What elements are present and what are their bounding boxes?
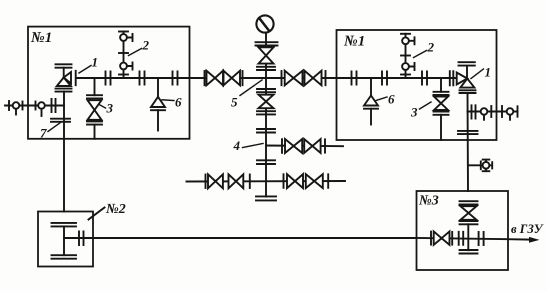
entry gauge cock circle A (13, 102, 20, 109)
check valve 6 left: seat bar (151, 109, 165, 111)
check valve 6 left: tail wire (157, 110, 159, 130)
gate valve 5 upper (vertical) (259, 47, 274, 55)
end tick (517, 106, 519, 116)
middle tick (119, 52, 128, 54)
gate valve B2 (305, 71, 314, 86)
angle valve 1 left: top flange (56, 64, 72, 67)
gauge cock C stem (483, 115, 485, 120)
svg-text:7: 7 (40, 126, 47, 141)
svg-text:1: 1 (92, 55, 99, 70)
gate valve pair right of center: tick (281, 71, 283, 85)
gauge cock circle D (507, 108, 514, 115)
flange pair on main line (173, 72, 178, 85)
flange pair right of junction (479, 232, 484, 245)
svg-text:в ГЗУ: в ГЗУ (511, 222, 544, 236)
angle valve 1 right: stem (466, 66, 468, 78)
flange 7 (51, 119, 70, 122)
gate valve block3 body (434, 231, 442, 244)
leader line 2 left (129, 49, 142, 56)
cock top tick (483, 160, 490, 162)
tick (501, 106, 503, 117)
tick (324, 139, 326, 152)
cock right tick (489, 162, 492, 168)
cock lower side stub (127, 63, 133, 70)
gate valve 3 left: body (88, 100, 102, 110)
angle valve 1 left: outlet flange bar (75, 71, 77, 85)
gate valve D2 (229, 174, 237, 188)
gate valve 3 right: body (434, 97, 448, 104)
svg-text:2: 2 (427, 40, 435, 55)
leader line 7 (48, 123, 60, 132)
leader line 1 right (471, 69, 484, 79)
tick (249, 175, 251, 189)
gate valve 3 right: upper flange (434, 92, 449, 95)
gate valve C1 (285, 139, 294, 153)
manifold block boundary No1 left (28, 27, 190, 139)
outlet arrow line to GZU (508, 238, 531, 240)
wire: right gauge line (468, 111, 518, 113)
entry flange pair (52, 99, 56, 112)
entry gauge cock B stem (41, 109, 43, 116)
gauge needle (260, 19, 268, 30)
gate valve E1 (287, 174, 295, 188)
flange below main junction (257, 89, 275, 92)
angle valve 1 right: horizontal triangle (457, 73, 468, 85)
flange (257, 111, 275, 114)
flange pair on main line (382, 72, 387, 85)
svg-text:3: 3 (106, 101, 114, 116)
leader line No2 (89, 208, 105, 220)
check valve 6 right: seat bar (364, 108, 378, 110)
angle valve 1 left: stem (63, 68, 65, 78)
flange above main junction (257, 67, 275, 70)
flange pair on main line (422, 72, 427, 85)
gate valve block3 horizontal: tick (430, 232, 432, 245)
arrowhead (529, 237, 540, 243)
flange pair on main line (140, 72, 145, 85)
tick (325, 71, 327, 85)
bottom tick (119, 74, 128, 76)
lower line right: tick (283, 174, 285, 188)
bottom tick (401, 74, 410, 76)
flange pair on tee (79, 232, 84, 246)
angle valve 1 right: bottom flange (460, 90, 476, 93)
gate valve 3 left: wire to box edge (94, 125, 96, 139)
tick (451, 232, 453, 245)
cock upper side stub (409, 37, 415, 44)
angle valve 1 right: top flange (459, 62, 475, 65)
manifold block boundary No2 (38, 212, 93, 267)
leader line 4 (243, 144, 264, 148)
junction 4 branch: tick (281, 139, 283, 153)
wire: block No3 through line (417, 238, 509, 239)
gate valve A2 (224, 71, 232, 86)
tick (490, 106, 492, 117)
gate valve B1 (285, 71, 294, 86)
bottom end cap block 2 (52, 255, 77, 259)
angle valve 1 right: vertical triangle (460, 79, 474, 88)
gate valve E2 (306, 174, 315, 188)
tee wire to the right (64, 237, 93, 239)
top tick (119, 31, 128, 33)
gate valve 3 right: lower flange (434, 112, 449, 115)
leader line 5 (240, 80, 262, 96)
flange pair left of junction (459, 232, 464, 245)
lower line left: tick (205, 175, 207, 189)
check valve 6 left: branch wire (157, 78, 159, 97)
bottom end cap block 3 (460, 250, 478, 254)
cock on down pipe: side stub (468, 162, 481, 170)
svg-text:6: 6 (175, 95, 182, 110)
wire: left gauge entry line (5, 105, 64, 107)
gate valve 3 left: lower flange (87, 121, 102, 124)
tick (242, 71, 244, 85)
wire: lower manifold horizontal (187, 180, 346, 183)
check valve 6 left: triangle (151, 97, 165, 107)
flange pair on main line (106, 72, 111, 85)
gate valve C2 (304, 139, 312, 153)
leader line 3 right (420, 102, 432, 109)
sampling cock assembly 2 right: riser wire (405, 34, 407, 78)
top tick (401, 33, 410, 35)
leader line 2 right (414, 51, 427, 58)
wire: main flowline left box to right box (77, 77, 457, 79)
svg-text:№1: №1 (343, 34, 365, 50)
leader line 1 left (79, 66, 91, 74)
wire: long line No2 to No3 (93, 237, 417, 239)
manifold block boundary No1 right (337, 30, 497, 140)
svg-text:№1: №1 (30, 30, 52, 46)
check valve 6 right: tail wire (370, 109, 372, 125)
bottom end cap (256, 196, 276, 200)
gate valve D1 (208, 174, 216, 188)
svg-text:4: 4 (233, 138, 241, 153)
manifold block boundary No3 (417, 191, 509, 270)
leader line 6 left (162, 99, 174, 102)
svg-text:1: 1 (485, 65, 492, 80)
angle valve 1 left: bottom flange (56, 89, 72, 92)
angle valve 1 left: vertical triangle (57, 78, 71, 87)
angle valve 1 right: inlet flange pair (450, 71, 454, 85)
gate valve below junction (vertical) (259, 95, 274, 102)
svg-text:2: 2 (142, 38, 150, 53)
entry line tick (22, 102, 24, 110)
cock lower side stub (409, 63, 415, 70)
entry line tick (35, 102, 37, 110)
entry gauge cock A stem (15, 109, 17, 115)
check valve 6 right: triangle (364, 96, 378, 106)
middle tick (401, 55, 410, 57)
cock upper side stub (127, 34, 133, 41)
svg-text:6: 6 (388, 92, 395, 107)
entry line end tick (8, 101, 10, 110)
gate valve block3 vertical (461, 206, 477, 213)
flange below gauge (256, 42, 278, 45)
sampling cock assembly 2 left: riser wire (123, 32, 125, 79)
flange in block 2 (52, 223, 77, 227)
flange on down pipe (458, 131, 478, 134)
gate valve 3 left: upper flange (87, 95, 102, 98)
wire to horizontal run (467, 224, 469, 250)
wire: vertical pipe right valve 1 down to block No3 (467, 93, 470, 191)
leader line 6 right (376, 97, 387, 101)
gate valve 3 left: branch wire (94, 78, 96, 95)
gate valve 3 right: wire to box edge (440, 115, 442, 140)
gate valve A1 (207, 71, 216, 86)
cock bottom tick (483, 169, 490, 172)
right gauge line: flange pair (472, 105, 476, 118)
gauge cock D stem (509, 115, 511, 120)
svg-text:№2: №2 (105, 202, 126, 217)
check valve 6 right: branch wire (370, 78, 372, 96)
pressure gauge (256, 15, 273, 32)
cock circle lower (120, 63, 127, 70)
flange at block 3 inlet (460, 201, 478, 204)
tick (327, 174, 329, 188)
svg-text:№3: №3 (418, 194, 439, 209)
gate valve 3 right: branch wire (440, 78, 442, 92)
gate valve pair left of center: tick (204, 71, 206, 85)
cock circle upper (402, 37, 409, 44)
leader line 3 left (99, 105, 106, 109)
wire down inside block 2 (63, 226, 65, 255)
cock circle upper (120, 34, 127, 41)
angle valve 1 left: horizontal triangle (64, 72, 71, 84)
wire: center manifold vertical (265, 33, 267, 197)
svg-text:5: 5 (231, 95, 238, 110)
flange pair above junction 4 (257, 129, 275, 133)
flange below (460, 221, 478, 224)
wire: vertical pipe from valve 1 left down to block No2 (63, 92, 65, 212)
entry gauge cock circle B (38, 102, 45, 109)
cock circle lower (402, 63, 409, 70)
gauge cock circle C (481, 108, 488, 115)
flange pair below junction 4 (257, 160, 275, 164)
svg-text:3: 3 (410, 105, 418, 120)
gate valve block3 center pin (440, 237, 443, 240)
flange pair on main line (352, 72, 357, 85)
wire: junction 4 branch to right (266, 145, 343, 148)
cock circle (483, 162, 490, 169)
